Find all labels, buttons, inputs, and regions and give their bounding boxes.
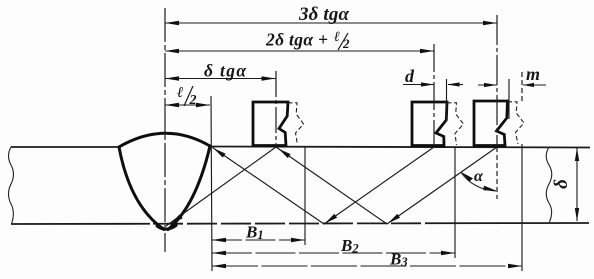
svg-text:ℓ: ℓ xyxy=(334,30,340,45)
svg-text:2: 2 xyxy=(342,36,350,51)
svg-text:δ: δ xyxy=(551,179,572,189)
svg-text:2: 2 xyxy=(189,93,197,108)
svg-text:2δ tgα +: 2δ tgα + xyxy=(265,30,328,50)
svg-text:δ tgα: δ tgα xyxy=(204,61,246,81)
svg-text:B3: B3 xyxy=(389,250,408,270)
svg-text:ℓ: ℓ xyxy=(177,85,183,101)
svg-text:α: α xyxy=(474,168,484,185)
svg-text:B2: B2 xyxy=(340,236,359,256)
svg-text:d: d xyxy=(405,66,415,86)
svg-text:B1: B1 xyxy=(245,223,264,243)
svg-text:3δ tgα: 3δ tgα xyxy=(298,4,349,25)
svg-text:m: m xyxy=(526,64,540,84)
